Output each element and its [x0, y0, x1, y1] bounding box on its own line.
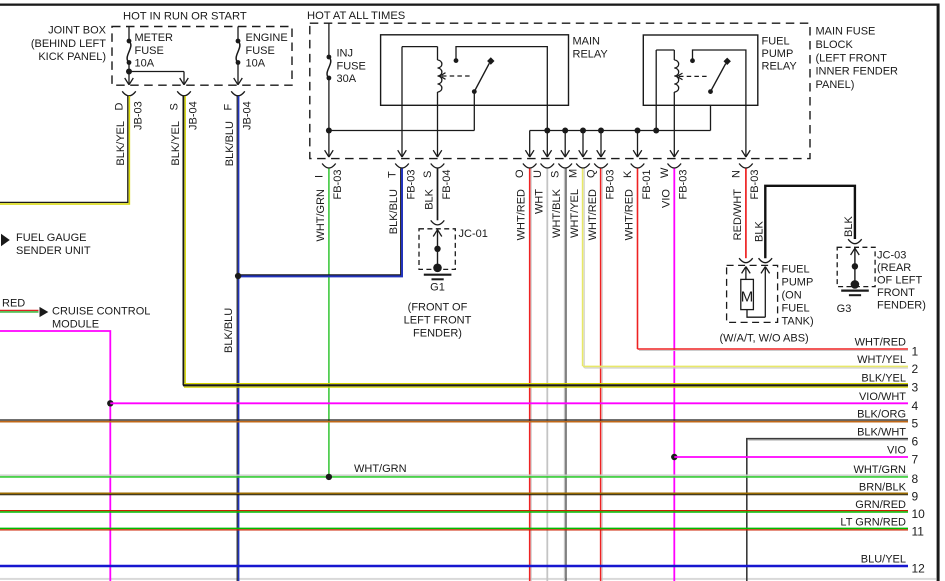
ground G3	[837, 280, 869, 315]
svg-text:(FRONT OF: (FRONT OF	[408, 302, 468, 314]
wire main relay coil outputs	[402, 105, 438, 157]
svg-text:G1: G1	[430, 282, 445, 294]
svg-text:RELAY: RELAY	[573, 49, 609, 61]
svg-text:G3: G3	[837, 303, 852, 315]
svg-text:BLK/ORG: BLK/ORG	[857, 408, 906, 420]
svg-text:FRONT: FRONT	[877, 287, 915, 299]
wire WHT/GRN I	[328, 169, 330, 478]
svg-text:BLK/BLU: BLK/BLU	[224, 121, 236, 166]
svg-text:FUSE: FUSE	[246, 45, 275, 57]
svg-text:WHT/RED: WHT/RED	[855, 337, 906, 349]
svg-text:HOT AT ALL TIMES: HOT AT ALL TIMES	[307, 10, 405, 22]
svg-text:METER: METER	[135, 32, 174, 44]
wire BLK fuel pump to JC-03	[754, 186, 856, 258]
connector pin M	[568, 164, 590, 238]
connector FB-04 pin S	[422, 164, 453, 210]
connector FB-03 pin T	[387, 164, 418, 235]
fuel gauge sender unit	[1, 232, 91, 257]
svg-text:MAIN: MAIN	[573, 36, 601, 48]
svg-text:(W/A/T, W/O ABS): (W/A/T, W/O ABS)	[720, 333, 809, 345]
svg-text:FUEL: FUEL	[782, 264, 810, 276]
svg-text:FUSE: FUSE	[135, 45, 164, 57]
svg-text:10: 10	[912, 507, 926, 521]
relay U2 FUEL PUMP RELAY	[643, 35, 797, 105]
main relay coil	[402, 47, 442, 106]
svg-text:S: S	[422, 171, 434, 178]
svg-text:JB-04: JB-04	[187, 101, 199, 130]
svg-text:S: S	[550, 171, 562, 178]
svg-text:S: S	[169, 103, 181, 110]
svg-text:5: 5	[912, 416, 919, 430]
fuel pump relay actuator dashed link	[677, 73, 707, 80]
wire 4 VIO/WHT	[110, 391, 918, 413]
svg-text:BLK: BLK	[424, 188, 436, 209]
svg-text:3: 3	[912, 381, 919, 395]
svg-text:OF LEFT: OF LEFT	[877, 275, 923, 287]
connector FB-01 pin K	[622, 164, 653, 241]
wire 6 BLK/WHT	[747, 426, 919, 581]
wire 7 VIO	[674, 445, 918, 467]
svg-text:INNER FENDER: INNER FENDER	[816, 66, 899, 78]
wire BLK/YEL D to fuel gauge circuit	[0, 96, 129, 204]
svg-text:WHT/RED: WHT/RED	[624, 189, 636, 240]
svg-text:FENDER): FENDER)	[413, 328, 462, 340]
svg-text:WHT/BLK: WHT/BLK	[551, 188, 563, 238]
wire 3 BLK/YEL	[183, 373, 919, 395]
svg-text:BLK/BLU: BLK/BLU	[223, 308, 235, 353]
svg-text:1: 1	[912, 345, 919, 359]
svg-text:WHT/RED: WHT/RED	[587, 189, 599, 240]
wire WHT/BLK S to bottom	[565, 169, 567, 581]
svg-text:FB-03: FB-03	[405, 170, 417, 200]
connector JB-04 pin S	[169, 91, 200, 165]
motor M1 fuel pump (on fuel tank)	[720, 258, 814, 344]
svg-text:FUEL: FUEL	[762, 36, 790, 48]
svg-text:(BEHIND LEFT: (BEHIND LEFT	[31, 38, 106, 50]
wire VIO W to bottom	[671, 169, 677, 581]
svg-text:N: N	[730, 170, 742, 178]
wire VIO/WHT feeder from left	[0, 331, 114, 581]
svg-text:PUMP: PUMP	[762, 48, 794, 60]
svg-text:GRN/RED: GRN/RED	[855, 499, 906, 511]
svg-text:(ON: (ON	[782, 290, 802, 302]
svg-text:BLK/YEL: BLK/YEL	[115, 121, 127, 166]
wire 10 GRN/RED	[0, 499, 925, 521]
svg-text:BLU/YEL: BLU/YEL	[861, 554, 906, 566]
svg-text:D: D	[114, 103, 126, 111]
connector FB-03 pin I	[313, 164, 344, 242]
svg-text:BLK/BLU: BLK/BLU	[388, 189, 400, 234]
connector FB-03 pin W	[659, 164, 690, 208]
svg-text:I: I	[313, 175, 325, 178]
wire meter fuse to second JB pin	[126, 69, 184, 85]
wire 2 WHT/YEL	[583, 354, 919, 376]
svg-text:WHT: WHT	[533, 189, 545, 214]
svg-text:LT GRN/RED: LT GRN/RED	[840, 517, 906, 529]
svg-text:PUMP: PUMP	[782, 277, 814, 289]
junction connector JC-03	[837, 239, 926, 311]
svg-text:JOINT BOX: JOINT BOX	[48, 25, 107, 37]
svg-text:JB-03: JB-03	[132, 101, 144, 130]
svg-text:SENDER UNIT: SENDER UNIT	[16, 245, 91, 257]
svg-text:(REAR: (REAR	[877, 262, 911, 274]
fuse ENGINE FUSE 10A	[236, 27, 288, 85]
svg-text:JB-04: JB-04	[241, 101, 253, 130]
svg-text:FB-03: FB-03	[678, 170, 690, 200]
svg-text:JC-01: JC-01	[459, 228, 488, 240]
svg-text:VIO/WHT: VIO/WHT	[859, 391, 906, 403]
wire 9 BRN/BLK	[0, 481, 919, 503]
JB output arrows	[125, 78, 243, 85]
svg-text:O: O	[514, 169, 526, 178]
svg-text:VIO: VIO	[660, 189, 672, 208]
wire 11 LT GRN/RED	[0, 517, 924, 539]
svg-text:JC-03: JC-03	[877, 250, 906, 262]
fuse INJ FUSE 30A	[327, 23, 366, 157]
svg-text:VIO: VIO	[887, 445, 906, 457]
joint box JB (behind left kick panel)	[31, 25, 292, 86]
svg-text:RED/WHT: RED/WHT	[732, 189, 744, 241]
svg-text:MAIN FUSE: MAIN FUSE	[816, 26, 876, 38]
junction dots on bus	[544, 128, 659, 134]
fuel pump relay switch	[690, 50, 746, 105]
svg-text:WHT/YEL: WHT/YEL	[569, 189, 581, 238]
connector FB-03 pin N	[730, 164, 761, 241]
wire 12 BLU/YEL	[0, 554, 925, 576]
connector JB-03 pin D	[114, 91, 145, 165]
svg-text:BLK: BLK	[843, 216, 855, 237]
wire 5 BLK/ORG	[0, 408, 919, 430]
svg-text:T: T	[387, 171, 399, 178]
svg-text:MODULE: MODULE	[52, 319, 99, 331]
svg-text:BLK/YEL: BLK/YEL	[170, 121, 182, 166]
fuel pump relay coil	[656, 50, 678, 105]
svg-text:10A: 10A	[246, 58, 266, 70]
svg-text:9: 9	[912, 489, 919, 503]
svg-text:INJ: INJ	[337, 48, 354, 60]
svg-text:W: W	[659, 167, 671, 178]
main fuse block (left front inner fender panel)	[310, 23, 898, 158]
svg-text:WHT/GRN: WHT/GRN	[315, 189, 327, 242]
fuse block output arrows	[325, 150, 751, 157]
svg-text:10A: 10A	[135, 58, 155, 70]
svg-text:WHT/GRN: WHT/GRN	[354, 463, 407, 475]
svg-text:RELAY: RELAY	[762, 61, 798, 73]
wire RED/WHT N to fuel pump	[745, 169, 747, 259]
wire BLK/BLU F vertical to bottom	[223, 96, 239, 581]
wire WHT/YEL M to wire 2	[583, 169, 585, 368]
wire 8 WHT/GRN	[0, 463, 919, 486]
svg-text:8: 8	[912, 472, 919, 486]
svg-text:11: 11	[912, 525, 925, 539]
wire INJ fuse to main relay switch	[326, 92, 474, 134]
svg-text:RED: RED	[2, 298, 25, 310]
svg-text:WHT/GRN: WHT/GRN	[853, 464, 906, 476]
connector JB-04 pin F	[223, 91, 254, 166]
wire WHT/RED Q to bottom	[601, 169, 603, 581]
svg-text:30A: 30A	[337, 73, 357, 85]
svg-text:4: 4	[912, 399, 919, 413]
svg-text:FUEL: FUEL	[782, 303, 810, 315]
relay U1 MAIN RELAY	[381, 35, 609, 106]
svg-text:FENDER): FENDER)	[877, 300, 926, 312]
cruise control module	[0, 298, 150, 331]
svg-text:BRN/BLK: BRN/BLK	[859, 481, 907, 493]
wire WHT/RED O to bottom	[530, 169, 532, 581]
svg-text:KICK PANEL): KICK PANEL)	[38, 51, 106, 63]
svg-text:K: K	[622, 170, 634, 178]
svg-text:BLK/YEL: BLK/YEL	[861, 373, 906, 385]
fuse METER FUSE 10A	[127, 27, 173, 85]
connector FB-03 pin Q	[586, 164, 617, 241]
svg-text:WHT/RED: WHT/RED	[516, 189, 528, 240]
wire BLK/BLU T to junction	[235, 169, 402, 280]
junction connector JC-01	[419, 220, 488, 269]
connector pin S	[550, 164, 572, 238]
svg-text:FB-03: FB-03	[604, 170, 616, 200]
wire WHT U to bottom	[546, 169, 548, 581]
svg-text:7: 7	[912, 453, 919, 467]
bus wire from fuel pump relay switch	[530, 105, 746, 157]
wire WHT/RED K to wire 1	[637, 169, 639, 350]
wire BLK S to JC-01	[437, 169, 439, 221]
wire BLK/YEL S vertical	[183, 96, 185, 385]
svg-text:Q: Q	[586, 169, 598, 178]
connector pin U	[532, 164, 554, 215]
svg-text:6: 6	[912, 434, 919, 448]
svg-text:M: M	[568, 169, 580, 178]
svg-text:LEFT FRONT: LEFT FRONT	[404, 315, 472, 327]
main relay actuator dashed link	[440, 73, 471, 80]
svg-text:M: M	[741, 289, 754, 306]
svg-text:U: U	[532, 170, 544, 178]
svg-text:TANK): TANK)	[782, 316, 814, 328]
svg-text:CRUISE CONTROL: CRUISE CONTROL	[52, 306, 150, 318]
connector pin O	[514, 164, 536, 241]
svg-text:FUEL GAUGE: FUEL GAUGE	[16, 232, 87, 244]
svg-text:FB-03: FB-03	[332, 170, 344, 200]
svg-text:WHT/YEL: WHT/YEL	[857, 354, 906, 366]
svg-text:FB-01: FB-01	[641, 170, 653, 200]
svg-text:BLK: BLK	[754, 221, 766, 242]
svg-text:ENGINE: ENGINE	[246, 32, 288, 44]
svg-text:PANEL): PANEL)	[816, 79, 855, 91]
svg-text:BLOCK: BLOCK	[816, 39, 854, 51]
main relay switch	[454, 47, 548, 106]
wire 1 WHT/RED	[638, 337, 919, 359]
svg-text:12: 12	[912, 562, 926, 576]
svg-text:(LEFT FRONT: (LEFT FRONT	[816, 52, 888, 64]
svg-text:F: F	[223, 104, 235, 111]
ground G1	[404, 264, 472, 340]
svg-text:HOT IN RUN OR START: HOT IN RUN OR START	[123, 11, 247, 23]
svg-text:FB-03: FB-03	[749, 170, 761, 200]
svg-text:BLK/WHT: BLK/WHT	[857, 426, 906, 438]
svg-text:FB-04: FB-04	[441, 170, 453, 200]
svg-text:FUSE: FUSE	[337, 60, 366, 72]
svg-text:2: 2	[912, 362, 919, 376]
